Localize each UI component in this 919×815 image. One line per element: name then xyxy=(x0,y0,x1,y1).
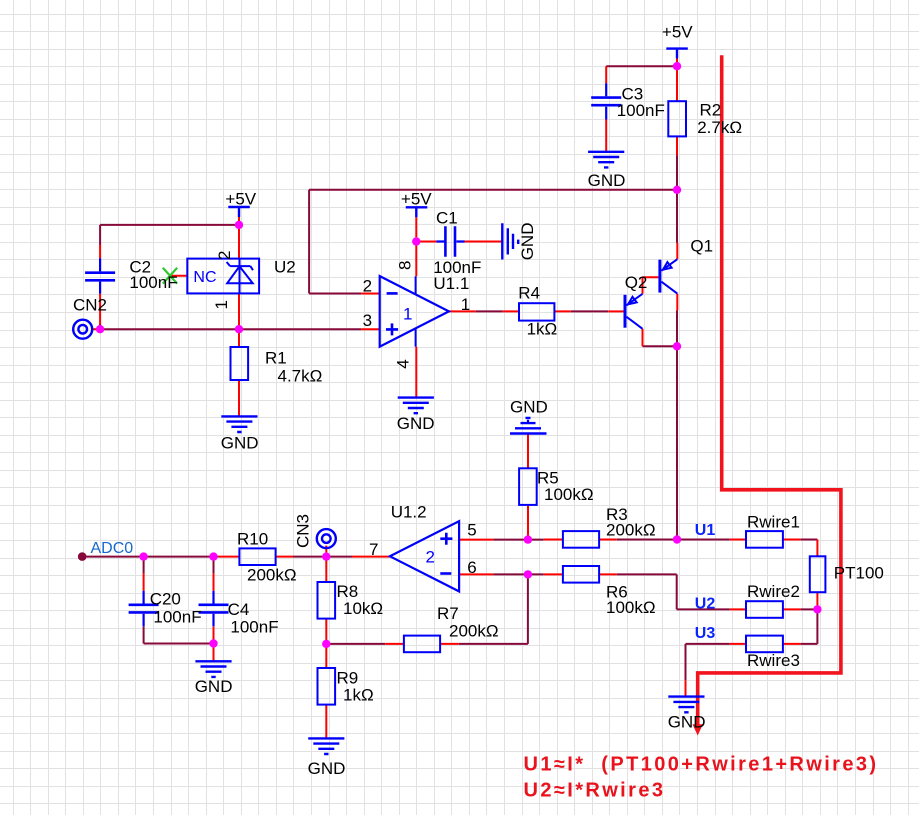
svg-text:+5V: +5V xyxy=(662,23,693,42)
wire C2 top drop xyxy=(99,225,101,245)
wire R7 right run xyxy=(459,643,528,645)
pin R5 bottom xyxy=(527,505,529,537)
junction R7 pin6 xyxy=(524,570,532,578)
connector CN2 xyxy=(73,320,92,339)
pin R9 top xyxy=(325,646,327,668)
wire CN3 node to U1.2 pin7 xyxy=(326,556,352,558)
svg-text:2.7kΩ: 2.7kΩ xyxy=(697,118,742,137)
power +5V right xyxy=(666,49,688,59)
pin C1 right xyxy=(465,241,503,243)
pin CN3 stub xyxy=(325,546,327,553)
svg-text:100nF: 100nF xyxy=(230,618,278,637)
pin U2 pin1 xyxy=(238,293,240,325)
pin C4 top xyxy=(213,573,215,591)
svg-text:1: 1 xyxy=(212,300,231,309)
pin R6 left xyxy=(544,573,563,575)
capacitor C4 xyxy=(199,591,229,626)
pin R7 left xyxy=(385,643,404,645)
wire pin5 node run xyxy=(493,539,543,541)
pin C20 top xyxy=(143,573,145,591)
svg-text:GND: GND xyxy=(397,414,435,433)
op-amp U1.2 plus xyxy=(440,533,452,545)
junction +5V left xyxy=(235,221,243,229)
svg-text:Rwire3: Rwire3 xyxy=(747,651,800,670)
resistor Rwire2 xyxy=(746,601,783,618)
svg-text:ADC0: ADC0 xyxy=(91,540,134,557)
pin R10 right xyxy=(276,556,293,558)
pin U1.1 pin1 out xyxy=(449,310,476,312)
wire R7 riser to pin6 xyxy=(527,574,529,644)
wire to U1.1 pin2 xyxy=(309,293,361,295)
wire C20 top xyxy=(143,557,145,574)
op-amp U1.1 minus xyxy=(387,292,398,295)
wire ADC0 run xyxy=(86,556,218,558)
svg-text:GND: GND xyxy=(518,223,537,261)
pin R10 left xyxy=(219,556,240,558)
wire Rwire3 right corner xyxy=(801,609,818,644)
pin Q1 collector xyxy=(676,294,678,311)
junction PT100 Rwire2 xyxy=(813,605,821,613)
resistor R6 xyxy=(563,566,599,583)
pin Q1 base link xyxy=(643,277,659,294)
wire Q2 collector run xyxy=(643,345,678,347)
svg-text:U2≈I*Rwire3: U2≈I*Rwire3 xyxy=(524,780,666,802)
diode U2 box xyxy=(187,259,259,294)
resistor R10 xyxy=(239,548,275,565)
connector CN3 xyxy=(317,529,336,548)
junction R5 pin5 xyxy=(524,535,532,543)
pin +5V U1.1 stem xyxy=(415,217,417,237)
svg-text:7: 7 xyxy=(369,540,378,559)
pin R3 right xyxy=(599,539,617,541)
pin U2 pin2 xyxy=(238,229,240,259)
transistor Q2 xyxy=(625,294,643,329)
resistor R9 xyxy=(318,668,336,705)
pin R4 right xyxy=(554,310,571,312)
junction R8 R9 xyxy=(322,640,330,648)
svg-text:10kΩ: 10kΩ xyxy=(343,599,383,618)
svg-text:200kΩ: 200kΩ xyxy=(606,521,656,540)
svg-text:U1.1: U1.1 xyxy=(433,274,469,293)
junction C4 top xyxy=(209,552,217,560)
pin C4 bottom xyxy=(213,626,215,640)
pin Rwire2 right xyxy=(783,608,801,610)
svg-text:R10: R10 xyxy=(237,529,268,548)
pin C4 GND stem xyxy=(213,644,215,662)
svg-text:100nF: 100nF xyxy=(153,607,201,626)
ground GND U1.1 xyxy=(398,398,434,414)
svg-text:R4: R4 xyxy=(518,284,540,303)
svg-text:C4: C4 xyxy=(228,600,250,619)
op-amp U1.1 pin4 stub xyxy=(415,329,417,347)
wire feedback top run xyxy=(309,189,677,191)
pin R6 right xyxy=(599,573,617,575)
pin R2 top xyxy=(676,66,678,101)
pin Rwire3 right xyxy=(783,643,801,645)
svg-text:100kΩ: 100kΩ xyxy=(544,485,594,504)
pin R9 bottom xyxy=(325,705,327,739)
svg-text:GND: GND xyxy=(308,759,346,778)
svg-text:GND: GND xyxy=(588,171,626,190)
svg-text:2: 2 xyxy=(363,276,372,295)
ground GND R9 xyxy=(308,738,344,754)
pin +5V right stem xyxy=(676,59,678,64)
port ADC0 dot xyxy=(78,552,87,561)
resistor R1 xyxy=(231,347,249,380)
svg-text:R7: R7 xyxy=(437,604,459,623)
junction C4 GND xyxy=(209,639,217,647)
svg-text:Q1: Q1 xyxy=(690,237,713,256)
wire R2 bottom to node xyxy=(676,155,678,190)
pin Rwire2 left xyxy=(730,608,746,610)
svg-text:200kΩ: 200kΩ xyxy=(449,622,499,641)
junction C1 +5V xyxy=(412,237,420,245)
wire R10 to CN3 node xyxy=(293,556,326,558)
op-amp U1.1 plus xyxy=(386,323,398,335)
junction U2 pin1 xyxy=(235,325,243,333)
junction Q collectors xyxy=(673,342,681,350)
pin Q1 emitter xyxy=(676,243,678,259)
svg-text:Rwire1: Rwire1 xyxy=(747,512,800,531)
ground GND R5 flipped xyxy=(510,418,547,434)
wire CN2 to U2 node xyxy=(100,328,239,330)
svg-text:GND: GND xyxy=(668,712,706,731)
junction CN2 xyxy=(96,325,104,333)
ground GND C1 rotated xyxy=(502,223,518,259)
pin U1.1 pin4 xyxy=(415,347,417,398)
wire pin1 to R4 xyxy=(476,310,503,312)
pin +5V left stem xyxy=(238,217,240,222)
svg-text:U3: U3 xyxy=(695,625,716,642)
pin R3 left xyxy=(544,539,563,541)
wire R6 right run xyxy=(617,573,677,575)
junction C20 top xyxy=(139,552,147,560)
svg-text:Rwire2: Rwire2 xyxy=(747,582,800,601)
svg-text:U2: U2 xyxy=(274,257,296,276)
svg-text:R1: R1 xyxy=(265,348,287,367)
capacitor C20 xyxy=(129,591,159,626)
svg-text:CN2: CN2 xyxy=(73,295,107,314)
svg-text:U1≈I* (PT100+Rwire1+Rwire3): U1≈I* (PT100+Rwire1+Rwire3) xyxy=(524,753,879,775)
svg-text:NC: NC xyxy=(193,269,216,286)
pin PT100 bottom xyxy=(816,592,818,609)
pin C3 top xyxy=(605,66,607,83)
svg-text:1: 1 xyxy=(461,295,470,314)
no-ERC marker green X xyxy=(163,268,177,284)
pin R5 top xyxy=(527,434,529,469)
svg-text:2: 2 xyxy=(426,547,435,566)
ground GND R1 xyxy=(221,416,257,432)
wire thick red remote sense loop xyxy=(693,55,841,735)
wire U2 node to U1.1 pin3 xyxy=(239,328,361,330)
svg-text:4: 4 xyxy=(394,359,413,368)
pin C2 bottom xyxy=(99,294,101,325)
power +5V U1.1 xyxy=(406,207,428,217)
wire Q1 collector drop xyxy=(676,310,678,346)
resistor R4 xyxy=(519,303,554,320)
pin C1 left xyxy=(416,241,436,243)
pin Rwire1 left xyxy=(730,539,746,541)
svg-text:Q2: Q2 xyxy=(625,273,648,292)
svg-text:1kΩ: 1kΩ xyxy=(343,686,374,705)
svg-text:6: 6 xyxy=(467,558,476,577)
pin Q2 base xyxy=(608,310,623,312)
svg-text:100kΩ: 100kΩ xyxy=(606,598,656,617)
svg-text:+5V: +5V xyxy=(225,189,256,208)
capacitor C2 xyxy=(85,258,115,293)
svg-text:5: 5 xyxy=(467,521,476,540)
wire R8 node to R7 xyxy=(326,643,385,645)
wire R3 right to U1 rail xyxy=(617,539,730,541)
wire R4 to Q2 base xyxy=(571,310,608,312)
pin U2 NC xyxy=(170,275,187,277)
svg-text:2: 2 xyxy=(215,250,234,259)
power +5V left xyxy=(228,207,250,217)
pin C2 top xyxy=(99,245,101,258)
junction U1 rail xyxy=(673,535,681,543)
wire +5V to C3 top xyxy=(606,65,677,67)
wire C20 bottom xyxy=(144,626,214,643)
pin U1.2 pin5 xyxy=(459,539,493,541)
wire U3 rail to Rwire3 xyxy=(686,643,730,645)
resistor Rwire1 xyxy=(746,531,783,548)
pin Rwire3 left xyxy=(730,643,746,645)
junction R2 bottom xyxy=(673,186,681,194)
svg-text:1kΩ: 1kΩ xyxy=(527,320,558,339)
pin R2 bottom xyxy=(676,136,678,155)
pin R1 top xyxy=(238,329,240,347)
svg-text:U1.2: U1.2 xyxy=(391,503,427,522)
op-amp U1.1 pin8 stub xyxy=(415,276,417,294)
svg-text:8: 8 xyxy=(395,261,414,270)
svg-text:4.7kΩ: 4.7kΩ xyxy=(278,366,323,385)
wire U2 rail corner xyxy=(676,574,678,609)
resistor R7 xyxy=(404,636,440,653)
wire node to Q1 emitter xyxy=(676,190,678,243)
svg-text:1: 1 xyxy=(403,305,412,324)
svg-text:GND: GND xyxy=(221,434,259,453)
svg-text:C20: C20 xyxy=(150,589,181,608)
op-amp U1.1 xyxy=(380,276,449,347)
wire C4 top xyxy=(213,557,215,574)
pin C3 bottom xyxy=(605,120,607,152)
wire U3 rail drop to GND xyxy=(685,644,687,680)
pin U1.1 pin3 xyxy=(361,328,379,330)
wire U2 rail to Rwire2 xyxy=(677,608,730,610)
svg-text:GND: GND xyxy=(195,677,233,696)
wire node to U1 rail xyxy=(676,346,678,539)
svg-text:100nF: 100nF xyxy=(129,273,177,292)
pin R4 left xyxy=(503,310,519,312)
svg-text:100nF: 100nF xyxy=(617,101,665,120)
resistor R3 xyxy=(563,531,599,548)
pin R1 bottom xyxy=(238,380,240,416)
pin Q2 collector xyxy=(642,329,644,347)
pin R7 right xyxy=(440,643,459,645)
wire feedback left drop xyxy=(308,190,310,294)
svg-text:GND: GND xyxy=(510,398,548,417)
resistor R5 xyxy=(519,468,537,505)
junction +5V right xyxy=(673,62,681,70)
resistor PT100 xyxy=(810,556,826,592)
pin U3 GND stem xyxy=(685,680,687,696)
wire pin6 node run xyxy=(493,573,543,575)
svg-text:C1: C1 xyxy=(436,208,458,227)
resistor R2 xyxy=(668,101,686,136)
svg-text:3: 3 xyxy=(363,311,372,330)
ground GND C4 xyxy=(195,661,231,677)
wire Rwire1 to PT100 xyxy=(801,539,818,541)
ground GND C3 xyxy=(588,152,624,168)
pin PT100 top xyxy=(816,540,818,557)
transistor Q1 xyxy=(660,259,677,293)
diode U2 zener symbol xyxy=(227,259,253,294)
pin U1.1 pin2 xyxy=(361,293,379,295)
pin R8 bottom xyxy=(325,619,327,644)
pin R8 top xyxy=(325,557,327,582)
pin U1.2 pin6 xyxy=(459,573,493,575)
capacitor C3 xyxy=(591,83,621,119)
junction CN3 xyxy=(322,552,330,560)
wire +5V left run xyxy=(100,224,239,226)
pin U1.1 pin8 xyxy=(415,242,417,277)
svg-text:200kΩ: 200kΩ xyxy=(247,565,297,584)
wire Rwire2 to PT100 node xyxy=(801,608,818,610)
pin U1.2 pin7 xyxy=(352,556,390,558)
op-amp U1.2 xyxy=(390,521,459,591)
svg-text:R2: R2 xyxy=(700,101,722,120)
resistor Rwire3 xyxy=(746,636,783,653)
resistor R8 xyxy=(318,582,336,619)
svg-text:CN3: CN3 xyxy=(293,514,312,548)
wire C2 bottom to CN2 node xyxy=(99,324,101,329)
svg-text:U2: U2 xyxy=(695,595,716,612)
pin Rwire1 right xyxy=(783,539,801,541)
svg-text:PT100: PT100 xyxy=(834,564,884,583)
capacitor C1 xyxy=(437,226,465,256)
pin CN2 stub xyxy=(92,328,97,330)
op-amp U1.2 minus xyxy=(440,572,451,575)
svg-text:+5V: +5V xyxy=(401,190,432,209)
ground GND U3 xyxy=(668,697,704,713)
svg-text:U1: U1 xyxy=(695,522,716,539)
